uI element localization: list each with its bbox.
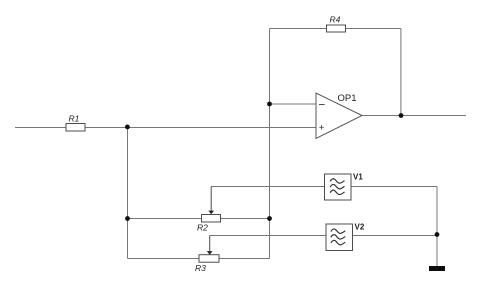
wire: R2 wiper vertical (210, 187, 212, 212)
svg-text:R3: R3 (195, 263, 206, 273)
source V2 waves (331, 229, 345, 245)
svg-text:R2: R2 (197, 222, 208, 232)
resistor R4 (327, 25, 346, 32)
junction: input node (125, 125, 130, 130)
wire: input net horizontal (15, 127, 316, 129)
potentiometer R2 wiper arrowhead (208, 211, 214, 215)
potentiometer R3 body (199, 255, 219, 263)
wire: R3 wiper horizontal to V2 (210, 235, 326, 237)
wire: R2 row (128, 218, 270, 220)
wire: inverting input (270, 103, 317, 105)
resistor R1 (66, 124, 85, 132)
wire: op-amp output (362, 115, 466, 117)
wire: middle vertical (feedback column) (269, 29, 271, 259)
op-amp OP1 minus sign (319, 104, 325, 106)
junction: V2 right node (435, 232, 440, 237)
wire: right rail down to ground (436, 187, 438, 267)
svg-text:OP1: OP1 (338, 93, 357, 104)
junction: R2 right node (267, 216, 272, 221)
op-amp OP1 plus sign (319, 125, 324, 130)
wire: R3 row (128, 258, 270, 260)
svg-text:R1: R1 (69, 113, 80, 123)
junction: output node (399, 113, 404, 118)
source V2 box (326, 224, 353, 251)
wire: R2 wiper horizontal to V1 (211, 186, 324, 188)
ground (429, 266, 445, 271)
junction: inverting input node (267, 102, 272, 107)
junction: R2 left node (125, 216, 130, 221)
wire: R3 wiper vertical (209, 236, 211, 252)
source V1 waves (330, 179, 344, 195)
potentiometer R2 body (202, 215, 221, 223)
svg-text:V1: V1 (353, 172, 363, 181)
svg-text:R4: R4 (330, 15, 341, 25)
op-amp OP1 triangle (316, 93, 362, 139)
wire: R4 top row (270, 28, 402, 30)
wire: V1 to right rail (351, 186, 437, 188)
wire: right feedback vertical (400, 29, 402, 116)
source V1 box (325, 174, 352, 200)
potentiometer R3 wiper arrowhead (207, 251, 213, 255)
wire: vertical from input node down to R3 row (127, 128, 129, 259)
svg-text:V2: V2 (355, 222, 365, 231)
wire: V2 to right rail (353, 235, 438, 237)
